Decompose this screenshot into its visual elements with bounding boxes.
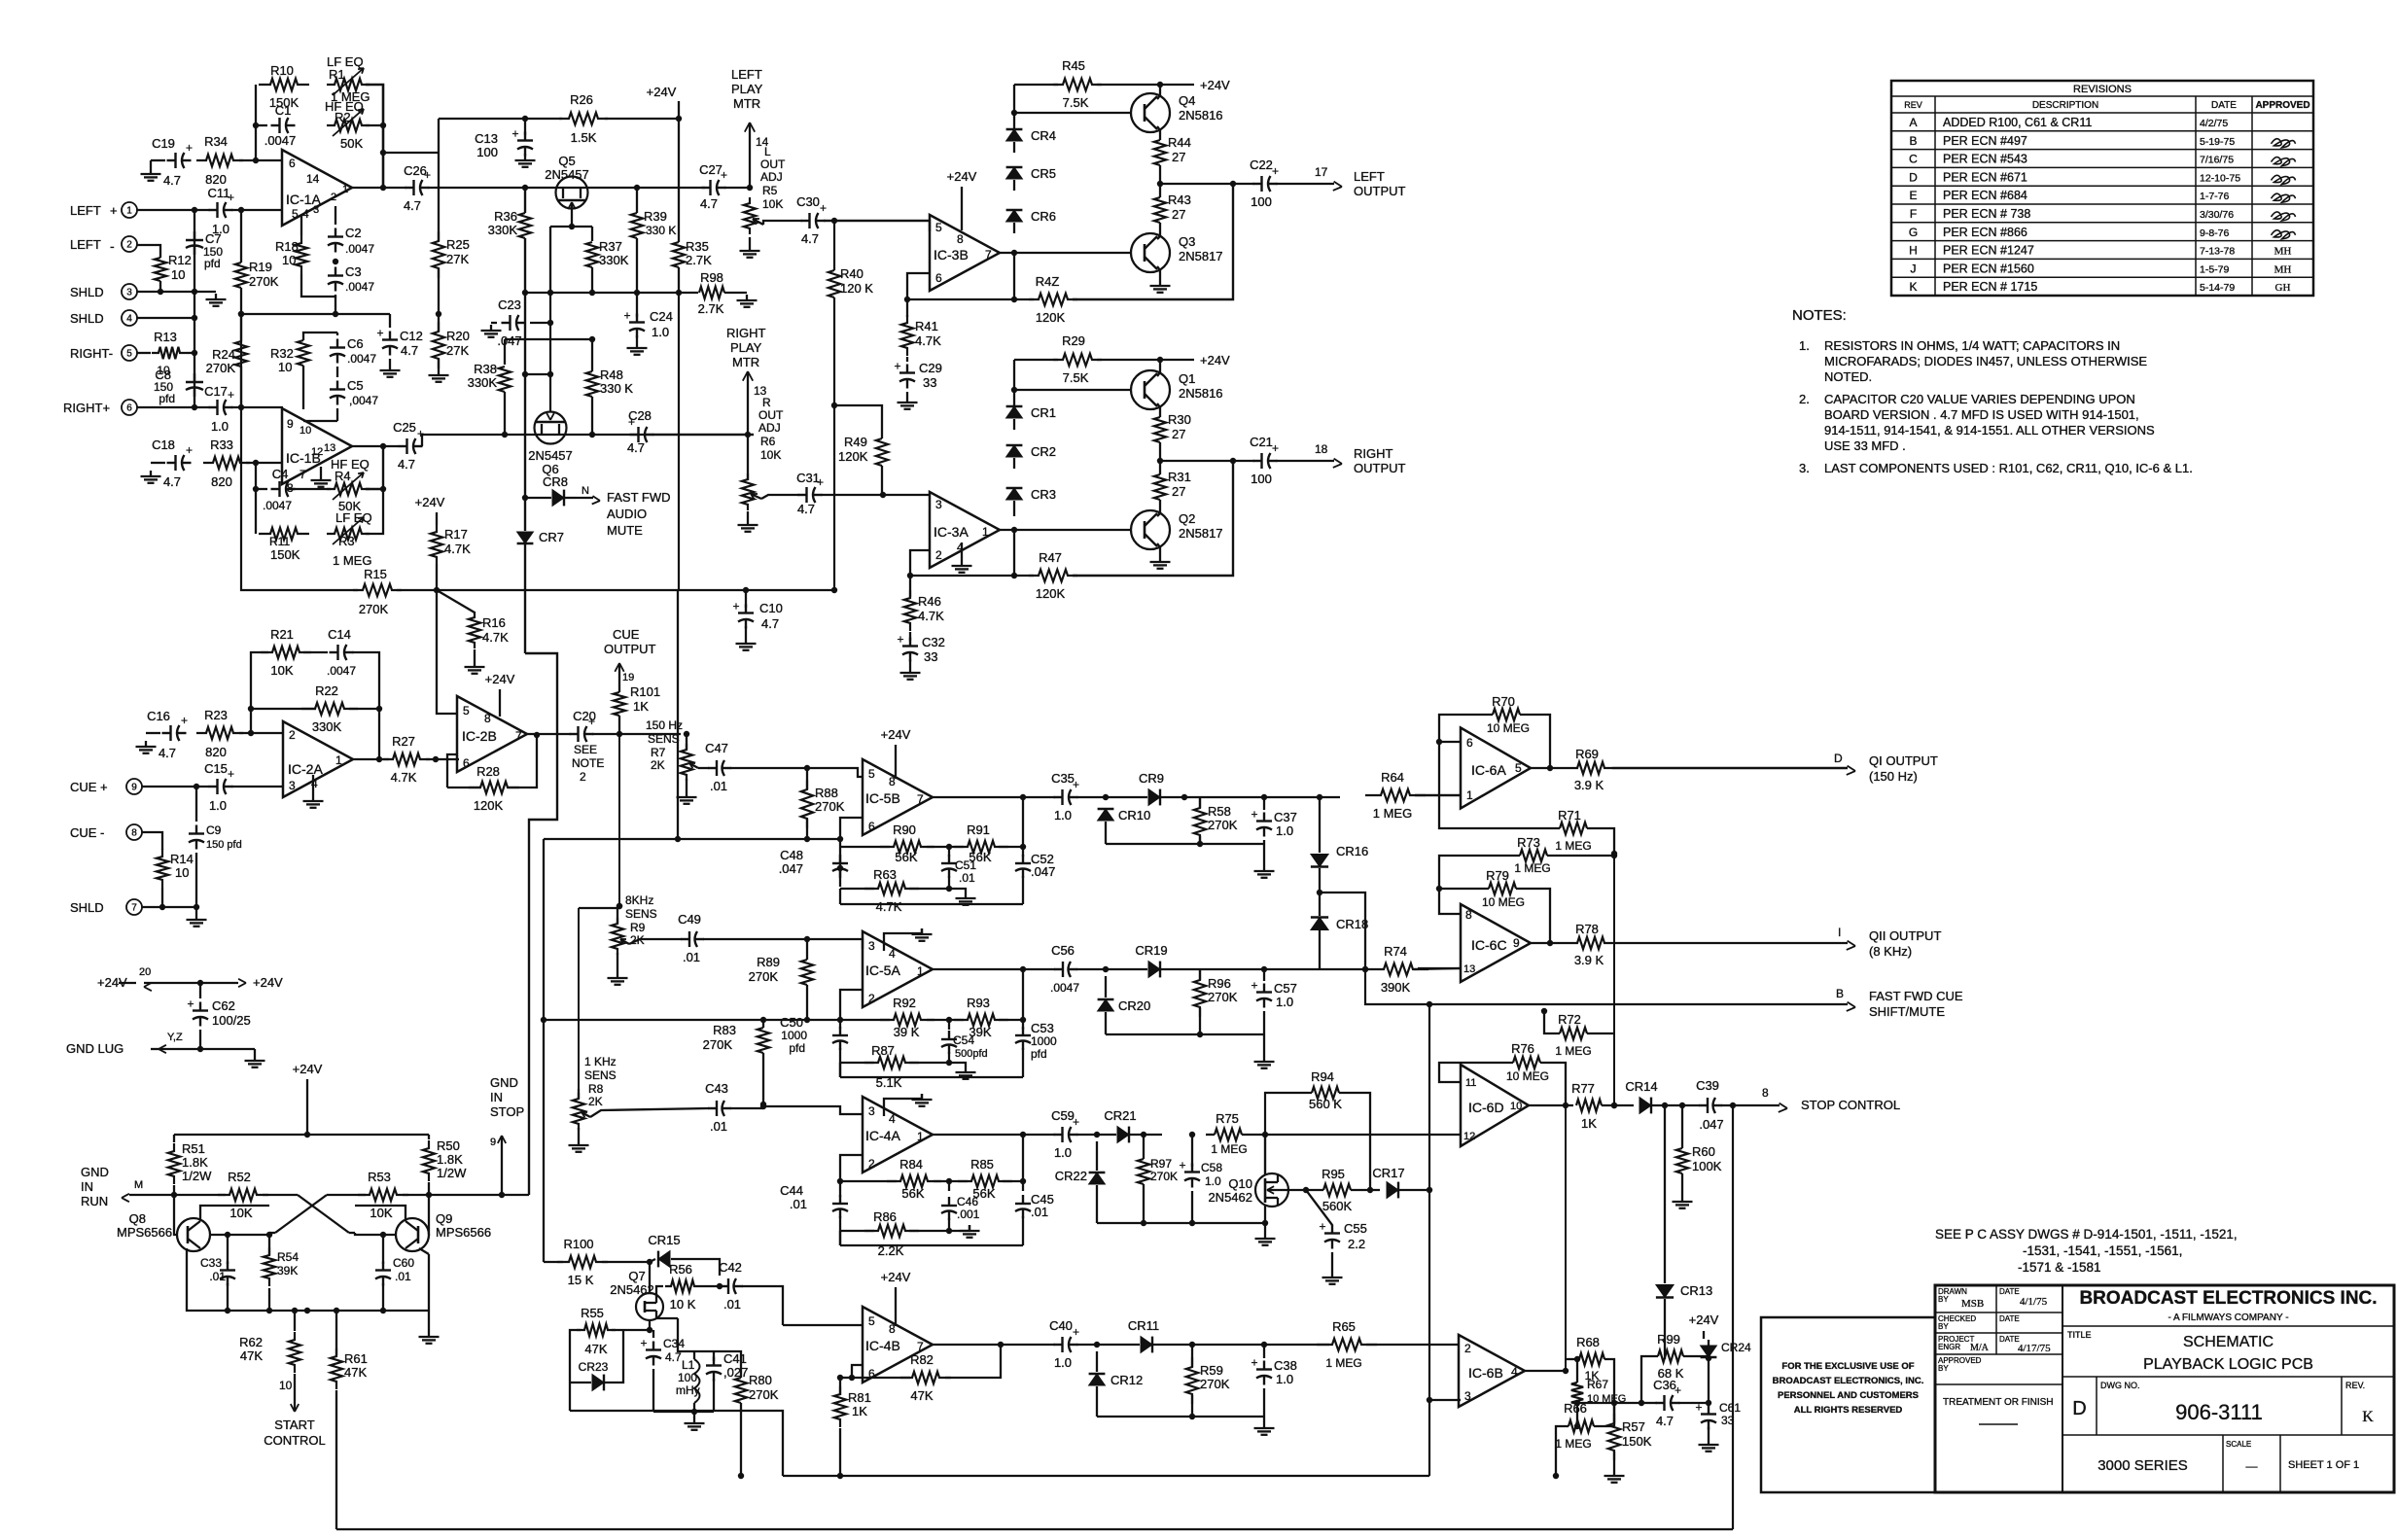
svg-text:Q2: Q2	[1179, 511, 1195, 526]
svg-text:.01: .01	[959, 871, 975, 885]
wire cue node down	[618, 734, 620, 906]
svg-text:D: D	[2072, 1398, 2086, 1419]
svg-text:4.7: 4.7	[404, 198, 421, 213]
ground	[195, 914, 197, 920]
svg-text:D: D	[1834, 752, 1843, 765]
svg-text:820: 820	[205, 172, 227, 187]
wire	[652, 434, 754, 436]
resistor R63	[864, 883, 919, 894]
bus wire lower	[783, 1475, 1429, 1477]
resistor R16	[437, 590, 475, 612]
resistor R27	[383, 753, 430, 765]
svg-text:+: +	[894, 360, 900, 373]
wire rail to mute bus	[502, 1194, 529, 1196]
svg-text:270K: 270K	[1208, 818, 1238, 832]
svg-text:R76: R76	[1511, 1041, 1534, 1056]
capacitor C5	[336, 381, 338, 390]
svg-text:SENS: SENS	[648, 732, 680, 746]
capacitor C51	[948, 855, 950, 863]
wire	[239, 159, 282, 161]
svg-text:13: 13	[1463, 963, 1475, 975]
resistor R69	[1569, 762, 1612, 774]
svg-text:2: 2	[580, 770, 586, 784]
svg-text:4/17/75: 4/17/75	[2018, 1343, 2051, 1354]
svg-text:27: 27	[1172, 427, 1185, 441]
svg-text:REV.: REV.	[2345, 1381, 2365, 1390]
resistor R100	[557, 1256, 608, 1268]
wire R66/R68 node	[1577, 1402, 1614, 1404]
svg-text:+: +	[1073, 1325, 1079, 1339]
svg-text:C25: C25	[393, 420, 416, 435]
svg-text:CAPACITOR C20 VALUE VARIES DEP: CAPACITOR C20 VALUE VARIES DEPENDING UPO…	[1824, 392, 2135, 406]
svg-text:4.7: 4.7	[801, 231, 819, 246]
svg-text:R22: R22	[315, 683, 338, 698]
resistor R62	[289, 1332, 300, 1373]
ground	[1263, 865, 1265, 871]
svg-text:MTR: MTR	[732, 355, 759, 369]
resistor R67	[1571, 1382, 1583, 1404]
svg-text:C2: C2	[345, 226, 362, 240]
svg-text:C50: C50	[780, 1015, 803, 1030]
wire	[1076, 1344, 1140, 1346]
svg-text:IC-2B: IC-2B	[462, 728, 497, 744]
svg-text:BROADCAST ELECTRONICS, INC.: BROADCAST ELECTRONICS, INC.	[1773, 1376, 1924, 1386]
svg-text:C21: C21	[1250, 435, 1273, 449]
diode CR19	[1148, 962, 1160, 978]
svg-text:ADJ: ADJ	[760, 170, 783, 184]
svg-text:3.: 3.	[1799, 461, 1810, 475]
svg-text:R33: R33	[210, 437, 233, 452]
svg-text:4.7K: 4.7K	[482, 630, 509, 645]
svg-text:CONTROL: CONTROL	[264, 1433, 326, 1448]
resistor R40	[828, 270, 840, 297]
resistor R24	[235, 341, 247, 367]
wire filter box bottom	[840, 1244, 1023, 1246]
resistor R51	[168, 1143, 180, 1184]
wire	[653, 1411, 714, 1413]
svg-text:PER ECN # 738: PER ECN # 738	[1943, 207, 2030, 221]
resistor R20	[433, 322, 444, 368]
svg-text:CR6: CR6	[1031, 209, 1056, 224]
resistor R95	[1323, 1184, 1351, 1196]
wire Q10 gate	[1287, 1189, 1306, 1191]
svg-text:FAST FWD: FAST FWD	[607, 490, 670, 505]
filter box 1kHz line	[544, 1019, 840, 1021]
svg-text:7: 7	[515, 729, 522, 743]
wire Q10 source	[1264, 1206, 1266, 1223]
ground IC-2A	[312, 775, 314, 795]
svg-text:13: 13	[324, 442, 335, 454]
ground	[1159, 556, 1161, 562]
svg-text:R30: R30	[1168, 412, 1191, 427]
resistor R49	[876, 438, 888, 466]
svg-text:8: 8	[131, 828, 137, 839]
diode CR17	[1387, 1182, 1398, 1199]
svg-text:1000: 1000	[1031, 1034, 1057, 1048]
svg-text:SCALE: SCALE	[2226, 1440, 2251, 1449]
wire mute rail	[437, 589, 834, 591]
svg-text:.01: .01	[1031, 1205, 1048, 1219]
svg-text:C55: C55	[1344, 1221, 1367, 1236]
svg-text:5: 5	[126, 349, 132, 360]
svg-text:9: 9	[131, 783, 137, 793]
svg-text:1: 1	[982, 525, 989, 539]
svg-text:C24: C24	[650, 309, 673, 324]
resistor R56	[665, 1280, 700, 1292]
svg-text:1: 1	[342, 184, 348, 195]
svg-text:270K: 270K	[815, 799, 845, 814]
diode CR6	[1006, 210, 1023, 222]
svg-text:RESISTORS IN OHMS, 1/4 WATT; C: RESISTORS IN OHMS, 1/4 WATT; CAPACITORS …	[1824, 338, 2120, 353]
svg-text:5: 5	[868, 1314, 875, 1328]
wire filter box bottom	[840, 903, 1023, 905]
svg-text:+: +	[1251, 1356, 1257, 1370]
svg-text:1 MEG: 1 MEG	[1211, 1142, 1247, 1156]
svg-text:R45: R45	[1062, 58, 1085, 73]
diode CR14	[1639, 1098, 1651, 1114]
svg-text:1.0: 1.0	[1054, 808, 1072, 822]
svg-text:1: 1	[917, 1130, 924, 1143]
svg-text:5.1K: 5.1K	[876, 1075, 902, 1090]
resistor R86	[864, 1225, 919, 1237]
svg-text:C28: C28	[628, 408, 652, 423]
svg-text:GND: GND	[490, 1075, 518, 1090]
svg-text:C1: C1	[275, 103, 292, 118]
wire	[194, 210, 195, 407]
op-amp IC-4A	[863, 1097, 933, 1172]
resistor R28	[469, 782, 519, 793]
svg-text:10K: 10K	[229, 1206, 252, 1220]
svg-text:+24V: +24V	[293, 1062, 323, 1076]
svg-text:R3: R3	[338, 534, 355, 548]
potentiometer R3 LF EQ	[327, 528, 370, 540]
svg-text:NOTED.: NOTED.	[1824, 369, 1872, 384]
svg-text:27K: 27K	[446, 252, 469, 266]
wire	[1076, 1134, 1116, 1136]
svg-text:R93: R93	[967, 996, 990, 1010]
svg-text:R91: R91	[967, 822, 990, 837]
wire output IC-1A	[351, 187, 406, 189]
ground	[215, 294, 217, 299]
svg-text:+24V: +24V	[485, 672, 515, 686]
diode CR13	[1656, 1285, 1674, 1298]
svg-text:RUN: RUN	[81, 1194, 108, 1208]
wire	[438, 359, 440, 369]
svg-text:4.7K: 4.7K	[918, 609, 944, 623]
ground	[1159, 280, 1161, 286]
svg-text:FAST FWD CUE: FAST FWD CUE	[1869, 989, 1963, 1003]
svg-text:33: 33	[1721, 1414, 1735, 1427]
capacitor C57	[1263, 984, 1265, 993]
svg-text:330K: 330K	[488, 223, 518, 237]
svg-text:27: 27	[1172, 207, 1185, 222]
svg-text:10: 10	[1510, 1101, 1522, 1112]
resistor R60	[1676, 1148, 1688, 1173]
svg-text:R7: R7	[651, 746, 666, 759]
svg-text:R: R	[762, 396, 771, 409]
svg-text:R95: R95	[1322, 1167, 1345, 1181]
wire IC-2B out	[527, 733, 571, 735]
op-amp IC-1A	[282, 150, 352, 226]
wire IC-4B pin5 net	[783, 1324, 863, 1326]
resistor R87	[864, 1057, 919, 1068]
resistor R83	[758, 1028, 769, 1053]
ground	[1263, 1056, 1265, 1062]
svg-text:8: 8	[1465, 908, 1472, 922]
svg-text:C: C	[1909, 153, 1918, 166]
resistor R98	[699, 287, 724, 298]
capacitor C25	[399, 445, 407, 447]
wire IC-3B input	[824, 221, 930, 231]
wire	[426, 758, 459, 760]
svg-text:R16: R16	[482, 615, 506, 630]
capacitor C23	[502, 322, 511, 324]
wire	[246, 462, 282, 464]
svg-text:1.0: 1.0	[1276, 1372, 1293, 1386]
svg-text:-1531, -1541, -1551, -1561,: -1531, -1541, -1551, -1561,	[2023, 1243, 2182, 1258]
svg-text:R43: R43	[1168, 192, 1191, 207]
svg-text:MH: MH	[2274, 246, 2292, 258]
svg-text:C16: C16	[147, 709, 170, 723]
resistor R96	[1194, 970, 1206, 1017]
resistor R59	[1186, 1357, 1198, 1404]
svg-text:BROADCAST ELECTRONICS INC.: BROADCAST ELECTRONICS INC.	[2079, 1288, 2377, 1309]
ground	[428, 1331, 430, 1337]
svg-text:5: 5	[935, 221, 942, 234]
resistor R88	[801, 780, 813, 828]
wire top rail	[174, 1134, 429, 1136]
svg-text:+24V: +24V	[415, 495, 445, 509]
wire	[255, 85, 257, 160]
svg-text:C35: C35	[1051, 771, 1075, 786]
svg-text:7: 7	[300, 468, 306, 481]
op-amp IC-6B	[1459, 1335, 1525, 1407]
svg-text:906-3111: 906-3111	[2175, 1400, 2263, 1424]
svg-text:GH: GH	[2275, 282, 2291, 294]
svg-text:FOR THE EXCLUSIVE USE OF: FOR THE EXCLUSIVE USE OF	[1781, 1361, 1914, 1372]
svg-text:10: 10	[171, 267, 185, 282]
resistor R41	[901, 315, 913, 356]
svg-text:R69: R69	[1575, 747, 1599, 761]
svg-text:4.7K: 4.7K	[444, 542, 471, 556]
svg-text:K: K	[1909, 280, 1917, 294]
capacitor C18	[167, 462, 176, 464]
svg-text:R77: R77	[1571, 1081, 1595, 1096]
svg-text:R14: R14	[170, 852, 194, 866]
resistor R64	[1365, 789, 1426, 801]
ground IC-5A pin4 tie	[884, 928, 922, 951]
diode CR20	[1098, 999, 1114, 1011]
svg-text:+24V: +24V	[1200, 78, 1230, 92]
svg-text:IC-5A: IC-5A	[865, 962, 900, 978]
svg-text:C10: C10	[759, 601, 783, 615]
diode CR18	[1311, 918, 1328, 930]
svg-text:R29: R29	[1062, 333, 1085, 348]
resistor R55	[577, 1324, 616, 1336]
svg-text:1: 1	[1466, 788, 1473, 802]
svg-text:C29: C29	[919, 361, 942, 375]
svg-text:R18: R18	[275, 239, 299, 254]
capacitor C9	[195, 825, 197, 834]
wire R36 bus down	[524, 293, 526, 374]
svg-text:3.9 K: 3.9 K	[1574, 953, 1604, 967]
svg-text:R79: R79	[1486, 868, 1509, 883]
svg-text:Q5: Q5	[558, 154, 575, 168]
svg-text:R99: R99	[1657, 1332, 1680, 1347]
svg-text:914-1511, 914-1541, & 914-1551: 914-1511, 914-1541, & 914-1551. ALL OTHE…	[1824, 423, 2155, 437]
svg-text:R78: R78	[1575, 922, 1599, 936]
svg-text:Q4: Q4	[1179, 93, 1195, 108]
svg-text:—: —	[2246, 1459, 2258, 1473]
capacitor C16	[162, 732, 171, 734]
resistor R82	[900, 1372, 951, 1383]
svg-text:R38: R38	[474, 362, 497, 376]
wire IC-6A out	[1531, 767, 1569, 769]
ground	[909, 667, 911, 673]
resistor R31	[1154, 474, 1166, 500]
svg-text:DATE: DATE	[1999, 1335, 2020, 1344]
svg-text:4.7K: 4.7K	[915, 333, 941, 348]
svg-text:5: 5	[292, 207, 299, 221]
capacitor C35	[1054, 796, 1063, 798]
op-amp IC-1B	[282, 408, 352, 484]
resistor R74	[1368, 963, 1428, 975]
svg-text:4.7: 4.7	[159, 746, 176, 760]
capacitor C43	[708, 1107, 717, 1109]
svg-text:270K: 270K	[206, 361, 236, 375]
resistor R37	[586, 242, 598, 267]
resistor R13	[152, 347, 187, 359]
capacitor C32	[909, 638, 911, 647]
svg-text:pfd: pfd	[159, 392, 175, 405]
svg-text:39 K: 39 K	[894, 1025, 920, 1039]
svg-text:ENGR: ENGR	[1938, 1343, 1960, 1351]
svg-text:47K: 47K	[910, 1388, 933, 1403]
svg-text:.047: .047	[1031, 864, 1055, 879]
svg-text:10K: 10K	[760, 448, 781, 462]
svg-text:7: 7	[917, 1340, 924, 1353]
diode CR24	[1701, 1346, 1717, 1357]
svg-text:2: 2	[331, 192, 336, 203]
capacitor C40	[1054, 1344, 1063, 1346]
svg-text:START: START	[274, 1417, 314, 1432]
resistor R80	[735, 1378, 747, 1403]
wire CR13 node	[1664, 1105, 1666, 1283]
svg-text:PER ECN #684: PER ECN #684	[1943, 189, 2027, 202]
svg-text:IC-6C: IC-6C	[1471, 937, 1507, 953]
svg-text:LEFT: LEFT	[70, 237, 101, 252]
ground	[1681, 1196, 1683, 1202]
transistor Q1 2N5816	[1131, 370, 1170, 409]
potentiometer R4 HF EQ	[327, 483, 370, 495]
svg-text:R98: R98	[700, 270, 723, 285]
svg-text:GND LUG: GND LUG	[66, 1041, 123, 1056]
wire R90 node	[839, 846, 841, 887]
capacitor C30	[801, 220, 810, 222]
svg-text:B: B	[1836, 987, 1844, 1000]
svg-text:C49: C49	[678, 912, 701, 927]
svg-text:.01: .01	[209, 1270, 226, 1283]
ground	[745, 638, 747, 644]
svg-text:CR16: CR16	[1336, 844, 1368, 858]
diode CR11	[1141, 1337, 1152, 1353]
svg-text:C30: C30	[796, 194, 820, 209]
svg-text:3: 3	[126, 288, 132, 298]
svg-text:ADJ: ADJ	[758, 421, 781, 435]
svg-text:1.0: 1.0	[1205, 1174, 1221, 1188]
svg-text:6: 6	[289, 157, 296, 170]
diode CR12	[1089, 1374, 1106, 1385]
resistor R26	[559, 113, 608, 124]
capacitor C22	[1253, 183, 1262, 185]
diode CR2	[1006, 445, 1023, 457]
svg-text:1 MEG: 1 MEG	[1555, 839, 1591, 853]
svg-text:SHLD: SHLD	[70, 311, 104, 326]
resistor R39	[631, 213, 643, 238]
resistor R72 loop IC-6C	[1560, 1028, 1587, 1039]
op-amp IC-3B	[930, 215, 1000, 291]
svg-text:C12: C12	[400, 329, 423, 343]
svg-text:1.0: 1.0	[1054, 1355, 1072, 1370]
svg-text:1: 1	[126, 206, 132, 217]
svg-text:C43: C43	[705, 1081, 728, 1096]
svg-text:100/25: 100/25	[212, 1013, 251, 1028]
resistor R92	[880, 1014, 934, 1026]
wire Q9 base	[355, 1233, 396, 1235]
svg-text:5: 5	[1515, 761, 1522, 775]
svg-text:3000 SERIES: 3000 SERIES	[2097, 1457, 2188, 1474]
svg-text:4/1/75: 4/1/75	[2020, 1296, 2048, 1308]
svg-text:R46: R46	[918, 594, 941, 609]
svg-text:LAST COMPONENTS USED : R101,: LAST COMPONENTS USED : R101, C62, CR11, …	[1824, 461, 2193, 475]
svg-text:C44: C44	[780, 1183, 803, 1198]
svg-text:.001: .001	[957, 1207, 980, 1221]
svg-text:+: +	[186, 443, 193, 457]
svg-text:CR11: CR11	[1128, 1318, 1159, 1333]
svg-text:R53: R53	[368, 1170, 391, 1184]
wire gate bus	[549, 293, 551, 412]
svg-text:R4: R4	[335, 469, 351, 483]
svg-text:C23: C23	[498, 297, 521, 312]
op-amp IC-2A	[283, 721, 353, 797]
wire mute bus	[524, 374, 526, 531]
wire	[366, 85, 383, 188]
svg-text:CR3: CR3	[1031, 487, 1056, 502]
svg-text:R97: R97	[1150, 1157, 1172, 1171]
op-amp IC-2B	[457, 696, 527, 772]
transistor Q8 MPS6566	[177, 1218, 210, 1251]
capacitor C46	[948, 1197, 950, 1206]
svg-text:9: 9	[490, 1137, 496, 1148]
svg-text:9-8-76: 9-8-76	[2200, 227, 2230, 239]
wire	[251, 652, 268, 733]
wire IC-5B pin6	[840, 818, 863, 846]
svg-text:390K: 390K	[1381, 980, 1411, 995]
svg-text:R54: R54	[277, 1250, 299, 1264]
svg-text:R57: R57	[1622, 1419, 1645, 1434]
svg-text:+24V: +24V	[947, 169, 977, 184]
svg-text:5: 5	[463, 704, 470, 717]
svg-text:2: 2	[1464, 1342, 1471, 1355]
svg-text:L: L	[764, 145, 771, 158]
svg-text:(150 Hz): (150 Hz)	[1869, 769, 1918, 784]
resistor R99	[1658, 1350, 1683, 1362]
svg-text:SCHEMATIC: SCHEMATIC	[2183, 1334, 2274, 1350]
diode CR10	[1098, 809, 1114, 821]
svg-text:R41: R41	[915, 319, 938, 333]
svg-text:LEFT: LEFT	[731, 67, 762, 82]
svg-text:1 MEG: 1 MEG	[333, 553, 371, 568]
